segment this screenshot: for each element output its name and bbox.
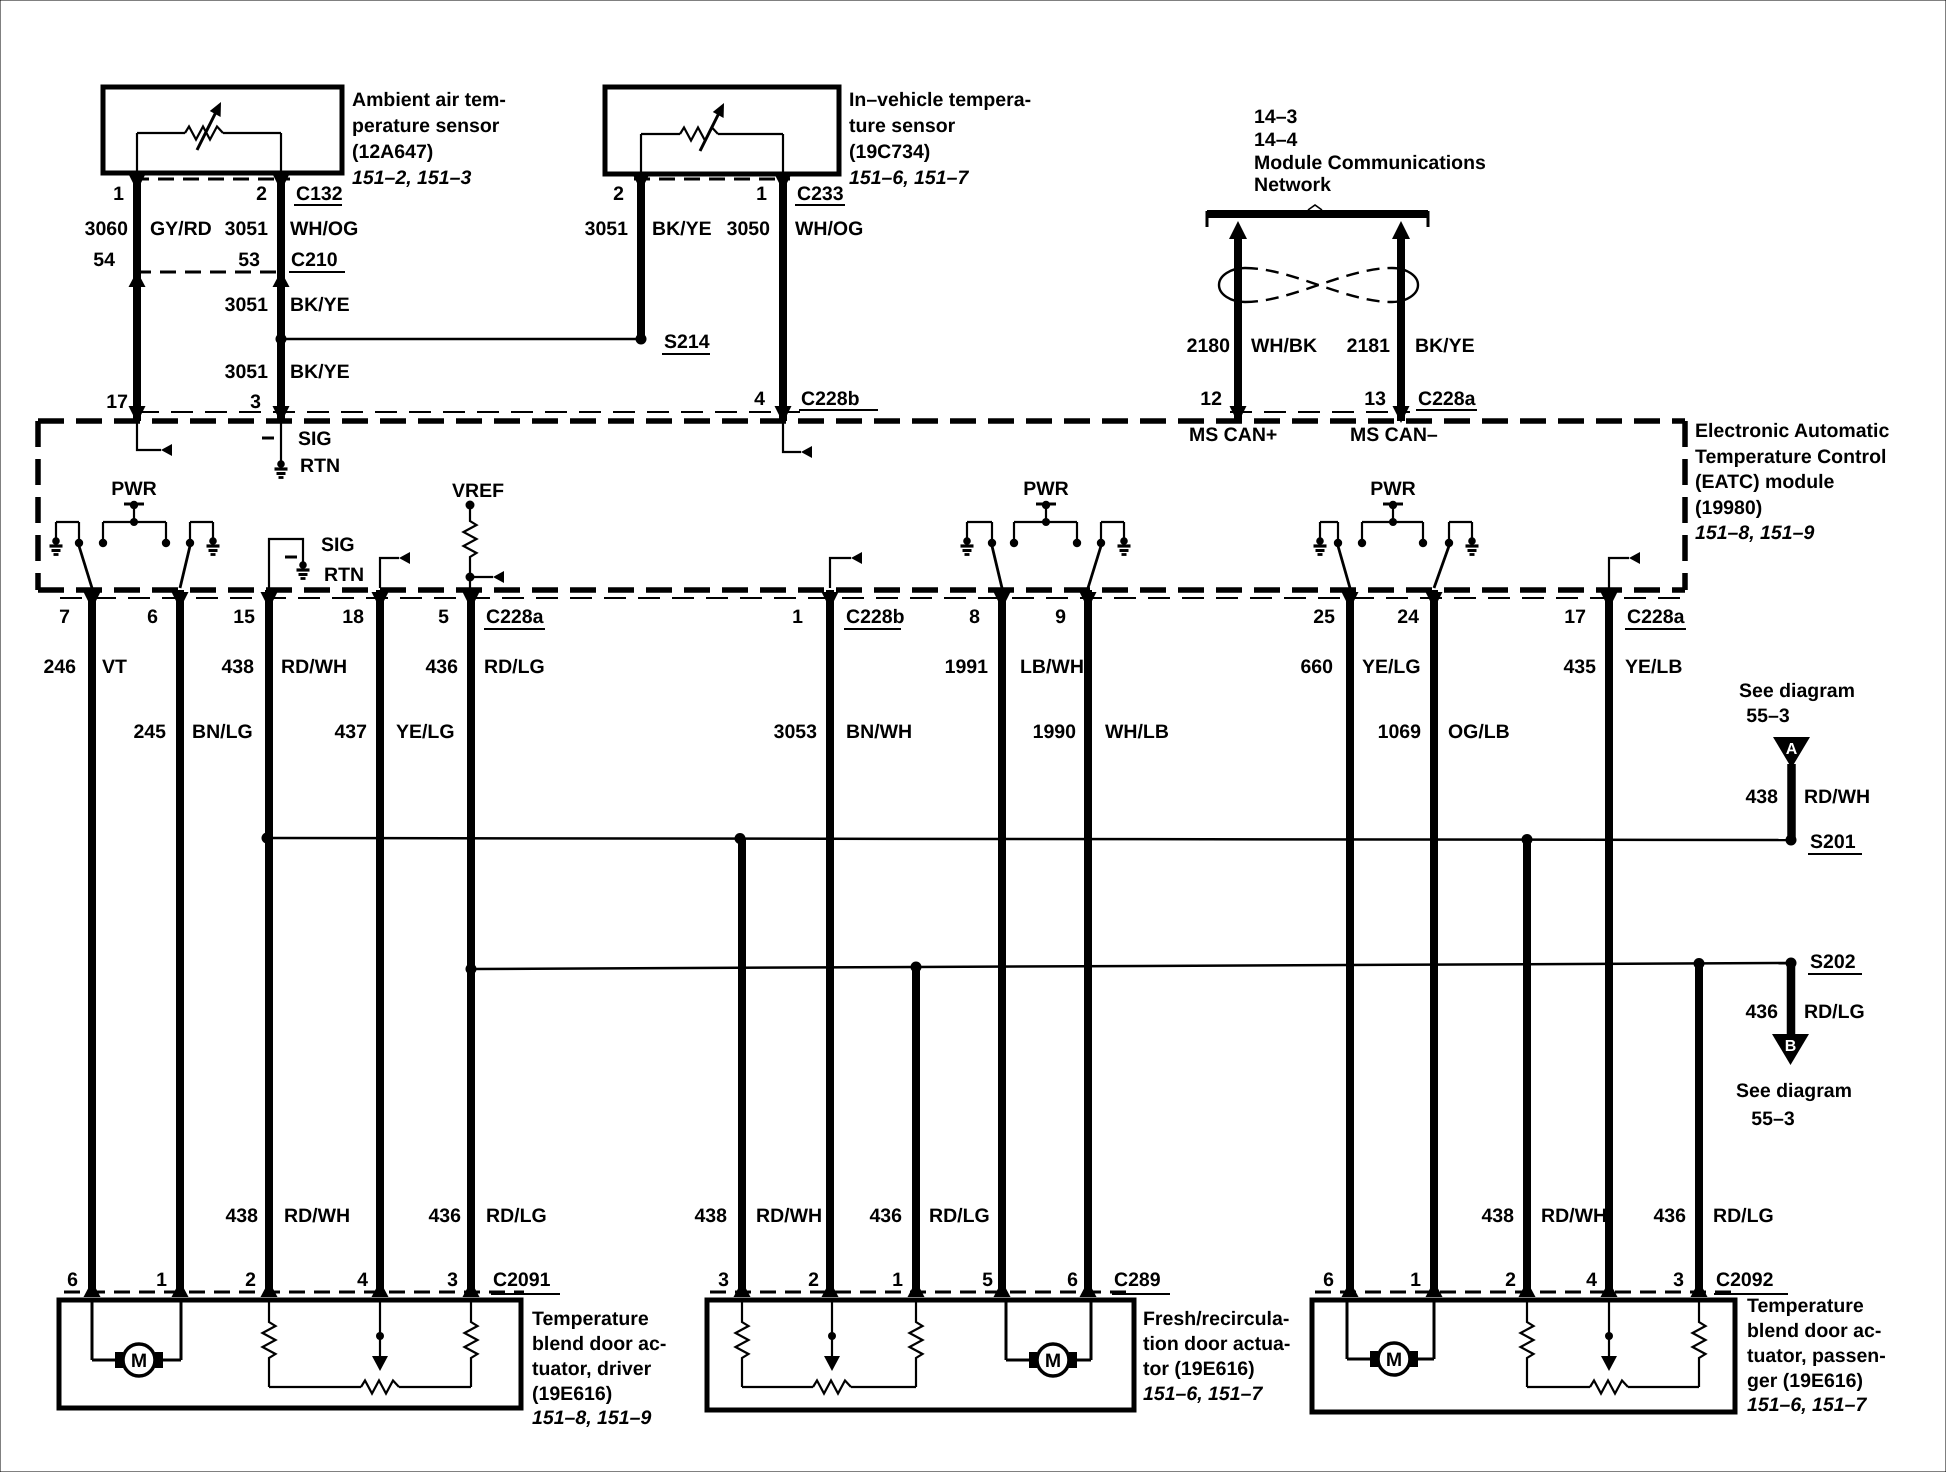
connector C2092 line: [1315, 1291, 1732, 1294]
svg-text:blend door ac-: blend door ac-: [532, 1333, 666, 1355]
svg-text:151–8, 151–9: 151–8, 151–9: [532, 1407, 651, 1429]
svg-text:S214: S214: [664, 331, 710, 353]
svg-text:54: 54: [93, 249, 115, 271]
svg-text:151–8, 151–9: 151–8, 151–9: [1695, 522, 1814, 544]
svg-text:BK/YE: BK/YE: [1415, 335, 1475, 357]
svg-text:VREF: VREF: [452, 480, 504, 502]
thermistor inside in-vehicle sensor: [640, 134, 642, 174]
svg-text:BK/YE: BK/YE: [290, 294, 350, 316]
svg-text:6: 6: [1067, 1269, 1078, 1291]
EATC module pin terminals (top row): [129, 406, 146, 423]
svg-text:tor (19E616): tor (19E616): [1143, 1358, 1255, 1380]
svg-text:YE/LB: YE/LB: [1625, 656, 1682, 678]
svg-text:(12A647): (12A647): [352, 141, 433, 163]
svg-text:2: 2: [245, 1269, 256, 1291]
connector C132 line: [133, 178, 290, 181]
svg-text:C228a: C228a: [1627, 606, 1685, 628]
switch blade right (left motor driver): [180, 546, 190, 588]
connector row thin dashed line (top): [137, 411, 800, 413]
wire 2181 BK/YE to EATC pin 13: [1397, 236, 1405, 421]
svg-text:RD/LG: RD/LG: [929, 1205, 990, 1227]
svg-text:BK/YE: BK/YE: [652, 218, 712, 240]
svg-text:3: 3: [1673, 1269, 1684, 1291]
feedback potentiometer resistor right (fresh/recirc door): [915, 1300, 917, 1318]
svg-text:Module Communications: Module Communications: [1254, 152, 1486, 174]
connector C233 pin terminals: [633, 174, 650, 191]
svg-text:245: 245: [133, 721, 166, 743]
svg-text:8: 8: [969, 606, 980, 628]
svg-text:ture sensor: ture sensor: [849, 115, 956, 137]
splice S214 junction dots: [276, 334, 287, 345]
ground contact left (right motor driver): [1319, 522, 1321, 540]
wire 438 RD/WH (pin 15 to C2091-2): [265, 590, 273, 1292]
svg-text:246: 246: [43, 656, 76, 678]
svg-text:436: 436: [1653, 1205, 1686, 1227]
svg-text:2181: 2181: [1347, 335, 1391, 357]
connector C289 line: [710, 1291, 1130, 1294]
motor M (driver blend door): [91, 1300, 94, 1360]
svg-text:RD/WH: RD/WH: [284, 1205, 350, 1227]
wire 435 YE/LB (pin 17 to C2092-4): [1605, 590, 1613, 1292]
svg-text:151–6, 151–7: 151–6, 151–7: [1747, 1394, 1867, 1416]
connector C210 pin terminals: [129, 271, 146, 287]
in-vehicle temperature sensor box (19C734): [605, 87, 839, 174]
svg-text:YE/LG: YE/LG: [396, 721, 455, 743]
svg-text:Fresh/recircula-: Fresh/recircula-: [1143, 1308, 1289, 1330]
svg-text:RD/LG: RD/LG: [484, 656, 545, 678]
temperature blend door actuator passenger box (19E616): [1312, 1300, 1735, 1412]
wire 246 VT (pin 7 to C2091-6): [88, 590, 96, 1292]
svg-text:438: 438: [1481, 1205, 1514, 1227]
svg-text:55–3: 55–3: [1746, 705, 1790, 727]
svg-text:A: A: [1786, 741, 1798, 758]
wire 245 BN/LG (pin 6 to C2091-1): [176, 590, 184, 1292]
svg-text:1: 1: [756, 183, 767, 205]
svg-text:WH/BK: WH/BK: [1251, 335, 1317, 357]
svg-text:3: 3: [250, 391, 261, 413]
feedback potentiometer track (driver blend door): [269, 1386, 361, 1388]
svg-text:3051: 3051: [225, 218, 269, 240]
svg-text:1: 1: [892, 1269, 903, 1291]
switch blade right (middle motor driver): [1088, 546, 1101, 588]
svg-text:BK/YE: BK/YE: [290, 361, 350, 383]
wire from in-vehicle sensor pin 1 to EATC pin 4: [779, 174, 787, 421]
connector C2091 pin terminals: [84, 1281, 101, 1297]
svg-text:4: 4: [357, 1269, 368, 1291]
feedback potentiometer wiper (fresh/recirc door): [831, 1300, 833, 1356]
svg-text:3: 3: [718, 1269, 729, 1291]
svg-text:437: 437: [334, 721, 367, 743]
svg-text:PWR: PWR: [1023, 478, 1069, 500]
wire 1069 OG/LB (pin 24 to C2092-1): [1430, 590, 1438, 1292]
svg-text:438: 438: [1745, 786, 1778, 808]
svg-text:(EATC) module: (EATC) module: [1695, 471, 1835, 493]
svg-text:BN/WH: BN/WH: [846, 721, 912, 743]
svg-text:17: 17: [106, 391, 128, 413]
svg-text:151–6, 151–7: 151–6, 151–7: [849, 167, 969, 189]
svg-text:BN/LG: BN/LG: [192, 721, 253, 743]
svg-text:1: 1: [156, 1269, 167, 1291]
svg-text:435: 435: [1563, 656, 1596, 678]
splice S202 wire: [471, 963, 1791, 969]
svg-text:3051: 3051: [225, 294, 269, 316]
internal SIG RTN ground at pin 3: [280, 423, 282, 463]
svg-text:(19E616): (19E616): [532, 1383, 612, 1405]
svg-text:151–6, 151–7: 151–6, 151–7: [1143, 1383, 1263, 1405]
svg-text:14–4: 14–4: [1254, 129, 1298, 151]
off-page connector B: [1772, 1034, 1809, 1065]
ground contact left (left motor driver): [55, 522, 57, 540]
svg-text:14–3: 14–3: [1254, 106, 1298, 128]
wire 436 RD/LG from S202 to B: [1787, 963, 1796, 1036]
wire 438 RD/WH (S201 to C2092-2): [1523, 839, 1531, 1292]
feedback potentiometer resistor right (passenger blend door): [1698, 1300, 1700, 1318]
svg-text:GY/RD: GY/RD: [150, 218, 212, 240]
svg-text:VT: VT: [102, 656, 127, 678]
connector C132 pin terminals: [129, 174, 146, 191]
svg-text:WH/OG: WH/OG: [290, 218, 358, 240]
svg-text:tion door actua-: tion door actua-: [1143, 1333, 1290, 1355]
svg-text:1069: 1069: [1378, 721, 1422, 743]
svg-text:1: 1: [792, 606, 803, 628]
svg-text:SIG: SIG: [298, 428, 332, 450]
motor M (fresh/recirc door): [1005, 1300, 1008, 1360]
svg-text:RTN: RTN: [300, 455, 340, 477]
wire 436 RD/LG (S202 to C2092-3): [1695, 963, 1703, 1292]
svg-text:660: 660: [1300, 656, 1333, 678]
svg-text:PWR: PWR: [111, 478, 157, 500]
off-page connector A: [1773, 737, 1810, 768]
svg-text:RD/WH: RD/WH: [1804, 786, 1870, 808]
svg-text:3053: 3053: [774, 721, 818, 743]
MS CAN- arrow up: [1392, 221, 1410, 239]
svg-text:C228a: C228a: [486, 606, 544, 628]
connector C2092 pin terminals: [1342, 1281, 1359, 1297]
svg-text:MS CAN–: MS CAN–: [1350, 424, 1438, 446]
svg-text:15: 15: [233, 606, 255, 628]
svg-text:C228b: C228b: [801, 388, 860, 410]
svg-text:tuator, driver: tuator, driver: [532, 1358, 652, 1380]
svg-text:Temperature: Temperature: [532, 1308, 649, 1330]
svg-text:436: 436: [1745, 1001, 1778, 1023]
internal SIG RTN ground at pin 15: [269, 539, 303, 588]
connector C2091 line: [64, 1291, 524, 1294]
svg-text:YE/LG: YE/LG: [1362, 656, 1421, 678]
svg-text:9: 9: [1055, 606, 1066, 628]
svg-text:RD/WH: RD/WH: [1541, 1205, 1607, 1227]
svg-text:12: 12: [1200, 388, 1222, 410]
svg-text:3: 3: [447, 1269, 458, 1291]
svg-text:RD/LG: RD/LG: [1713, 1205, 1774, 1227]
wire from ambient sensor pin 1 to EATC pin 17: [133, 173, 141, 421]
svg-text:C210: C210: [291, 249, 338, 271]
feedback potentiometer resistor left (passenger blend door): [1526, 1300, 1528, 1318]
svg-text:438: 438: [221, 656, 254, 678]
wire 436 RD/LG (pin 5 to C2091-3): [467, 590, 475, 1292]
svg-text:WH/LB: WH/LB: [1105, 721, 1169, 743]
switch blade left (middle motor driver): [992, 546, 1002, 588]
svg-text:1990: 1990: [1033, 721, 1077, 743]
svg-text:436: 436: [428, 1205, 461, 1227]
feedback potentiometer resistor right (driver blend door): [470, 1300, 472, 1318]
internal arrow at pin 4: [783, 423, 801, 452]
wire from in-vehicle sensor pin 2 to splice S214: [637, 174, 645, 339]
svg-text:B: B: [1785, 1038, 1797, 1055]
wire 438 RD/WH (S201 to C289-3): [738, 838, 746, 1292]
connector C233 line: [634, 178, 790, 181]
connector row thin dashed line (bottom): [60, 597, 1680, 599]
splice S202 junction dots: [466, 964, 477, 975]
ground contact left (middle motor driver): [966, 522, 968, 540]
svg-text:5: 5: [982, 1269, 993, 1291]
svg-text:MS CAN+: MS CAN+: [1189, 424, 1277, 446]
svg-text:18: 18: [342, 606, 364, 628]
svg-text:perature sensor: perature sensor: [352, 115, 500, 137]
feedback potentiometer resistor left (driver blend door): [268, 1300, 270, 1318]
svg-text:436: 436: [869, 1205, 902, 1227]
svg-text:2: 2: [613, 183, 624, 205]
svg-text:PWR: PWR: [1370, 478, 1416, 500]
splice S201 junction dots: [262, 833, 273, 844]
switch blade right (right motor driver): [1434, 546, 1449, 588]
svg-text:OG/LB: OG/LB: [1448, 721, 1510, 743]
svg-text:438: 438: [694, 1205, 727, 1227]
svg-text:RD/WH: RD/WH: [756, 1205, 822, 1227]
connector C289 pin terminals: [734, 1281, 751, 1297]
wire 2180 WH/BK to EATC pin 12: [1234, 236, 1242, 421]
svg-text:6: 6: [67, 1269, 78, 1291]
svg-text:C228b: C228b: [846, 606, 905, 628]
feedback potentiometer resistor left (fresh/recirc door): [741, 1300, 743, 1318]
svg-text:Temperature Control: Temperature Control: [1695, 446, 1886, 468]
svg-text:55–3: 55–3: [1751, 1108, 1795, 1130]
svg-text:Ambient air tem-: Ambient air tem-: [352, 89, 506, 111]
svg-text:C2092: C2092: [1716, 1269, 1774, 1291]
feedback potentiometer wiper (driver blend door): [379, 1300, 381, 1356]
EATC module box (dashed): [38, 418, 1685, 424]
svg-text:1: 1: [1410, 1269, 1421, 1291]
wire from ambient sensor pin 2 to EATC pin 3: [277, 173, 285, 421]
svg-text:6: 6: [147, 606, 158, 628]
internal arrow at pin 17: [137, 423, 161, 450]
svg-text:C233: C233: [797, 183, 844, 205]
svg-text:151–2, 151–3: 151–2, 151–3: [352, 167, 471, 189]
svg-text:ger (19E616): ger (19E616): [1747, 1370, 1863, 1392]
svg-text:(19C734): (19C734): [849, 141, 930, 163]
svg-text:S202: S202: [1810, 951, 1856, 973]
wire 1990 WH/LB (pin 9 to C289-6): [1084, 590, 1092, 1292]
temperature blend door actuator driver box (19E616): [59, 1300, 521, 1408]
svg-text:M: M: [131, 1350, 147, 1372]
feedback potentiometer wiper (passenger blend door): [1608, 1300, 1610, 1356]
feedback potentiometer track (fresh/recirc door): [742, 1386, 813, 1388]
svg-text:2: 2: [256, 183, 267, 205]
svg-text:4: 4: [754, 388, 765, 410]
svg-text:6: 6: [1323, 1269, 1334, 1291]
svg-text:3050: 3050: [727, 218, 771, 240]
wire 660 YE/LG (pin 25 to C2092-6): [1346, 590, 1354, 1292]
svg-text:2180: 2180: [1187, 335, 1231, 357]
wire 1991 LB/WH (pin 8 to C289-5): [998, 590, 1006, 1292]
svg-text:1991: 1991: [945, 656, 989, 678]
motor M (passenger blend door): [1346, 1300, 1349, 1359]
svg-text:Electronic Automatic: Electronic Automatic: [1695, 420, 1889, 442]
svg-text:C132: C132: [296, 183, 343, 205]
svg-text:(19980): (19980): [1695, 497, 1762, 519]
svg-text:13: 13: [1364, 388, 1386, 410]
svg-text:See diagram: See diagram: [1739, 680, 1855, 702]
fresh/recirculation door actuator box (19E616): [707, 1300, 1134, 1410]
svg-text:4: 4: [1586, 1269, 1597, 1291]
svg-text:See diagram: See diagram: [1736, 1080, 1852, 1102]
switch blade left (right motor driver): [1338, 546, 1350, 588]
ground contact right (right motor driver): [1448, 522, 1450, 540]
svg-text:LB/WH: LB/WH: [1020, 656, 1084, 678]
svg-text:1: 1: [113, 183, 124, 205]
ground contact right (left motor driver): [189, 522, 191, 540]
svg-text:M: M: [1045, 1350, 1061, 1372]
svg-text:Temperature: Temperature: [1747, 1295, 1864, 1317]
svg-text:S201: S201: [1810, 831, 1856, 853]
internal arrow at pin 1: [830, 558, 851, 588]
ground contact right (middle motor driver): [1100, 522, 1102, 540]
ambient air temperature sensor box (12A647): [103, 87, 342, 173]
svg-text:WH/OG: WH/OG: [795, 218, 863, 240]
connector C210 line: [135, 271, 285, 274]
svg-text:7: 7: [59, 606, 70, 628]
svg-text:53: 53: [238, 249, 260, 271]
twisted pair symbol: [1219, 268, 1245, 302]
svg-text:438: 438: [225, 1205, 258, 1227]
wire 438 RD/WH from A to S201: [1787, 764, 1796, 838]
thermistor inside ambient sensor: [136, 133, 138, 173]
svg-text:C2091: C2091: [493, 1269, 551, 1291]
svg-text:C228a: C228a: [1418, 388, 1476, 410]
svg-text:5: 5: [438, 606, 449, 628]
network bus bar: [1207, 210, 1428, 218]
svg-text:25: 25: [1313, 606, 1335, 628]
PWR feed tree (left motor driver): [124, 503, 144, 506]
svg-text:2: 2: [1505, 1269, 1516, 1291]
svg-text:Network: Network: [1254, 174, 1331, 196]
wire 437 YE/LG (pin 18 to C2091-4): [376, 590, 384, 1292]
EATC module pin terminals (bottom row): [84, 592, 101, 609]
svg-text:436: 436: [425, 656, 458, 678]
MS CAN+ arrow up: [1229, 221, 1247, 239]
svg-text:tuator, passen-: tuator, passen-: [1747, 1345, 1886, 1367]
svg-text:RD/LG: RD/LG: [1804, 1001, 1865, 1023]
internal arrow at pin 18: [380, 558, 399, 588]
svg-text:RD/LG: RD/LG: [486, 1205, 547, 1227]
svg-text:2: 2: [808, 1269, 819, 1291]
svg-text:3051: 3051: [585, 218, 629, 240]
svg-text:In–vehicle tempera-: In–vehicle tempera-: [849, 89, 1031, 111]
splice S201 wire: [267, 838, 1791, 840]
svg-text:3051: 3051: [225, 361, 269, 383]
switch blade left (left motor driver): [79, 546, 92, 588]
svg-text:M: M: [1386, 1349, 1402, 1371]
feedback potentiometer track (passenger blend door): [1527, 1386, 1590, 1388]
PWR feed tree (middle motor driver): [1036, 503, 1056, 506]
PWR feed tree (right motor driver): [1383, 503, 1403, 506]
wire 3053 BN/WH (pin 1 to C289-2): [826, 590, 834, 1292]
svg-text:17: 17: [1564, 606, 1586, 628]
svg-text:RD/WH: RD/WH: [281, 656, 347, 678]
internal arrow at pin 17 (right): [1609, 558, 1629, 588]
svg-text:RTN: RTN: [324, 564, 364, 586]
svg-text:3060: 3060: [85, 218, 129, 240]
splice S214 wire: [281, 338, 641, 341]
svg-text:SIG: SIG: [321, 534, 355, 556]
svg-text:C289: C289: [1114, 1269, 1161, 1291]
wire 436 RD/LG (S202 to C289-1): [912, 967, 920, 1292]
svg-text:blend door ac-: blend door ac-: [1747, 1320, 1881, 1342]
svg-text:24: 24: [1397, 606, 1419, 628]
